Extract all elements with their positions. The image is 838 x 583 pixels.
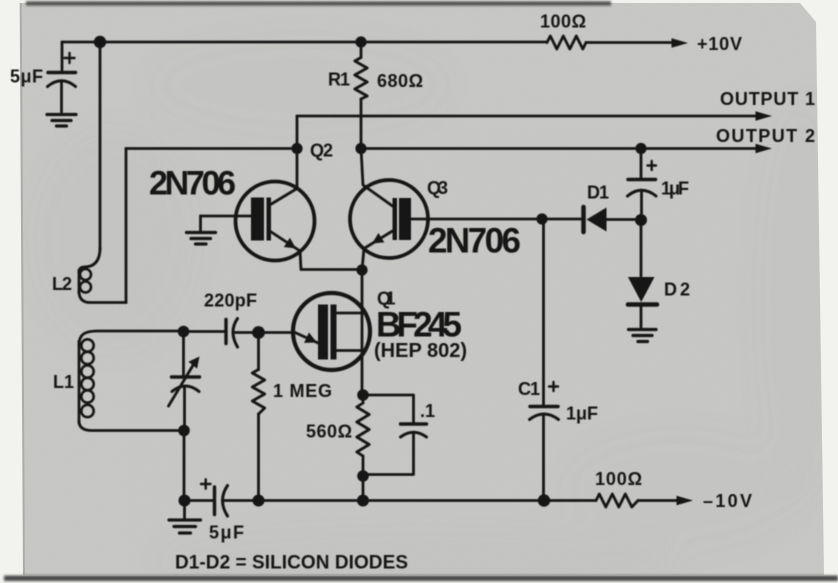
- svg-text:220pF: 220pF: [204, 291, 257, 311]
- svg-text:L1: L1: [53, 372, 74, 392]
- svg-text:1μF: 1μF: [566, 404, 598, 424]
- svg-text:Q3: Q3: [427, 178, 448, 198]
- svg-text:.1: .1: [420, 401, 435, 421]
- svg-text:5μF: 5μF: [209, 523, 244, 543]
- svg-text:100Ω: 100Ω: [540, 12, 586, 32]
- svg-text:OUTPUT 1: OUTPUT 1: [720, 89, 815, 109]
- svg-text:–10V: –10V: [703, 491, 752, 511]
- svg-text:680Ω: 680Ω: [377, 71, 423, 91]
- svg-text:(HEP 802): (HEP 802): [374, 340, 467, 362]
- svg-text:Q2: Q2: [310, 141, 333, 161]
- svg-text:BF245: BF245: [376, 306, 462, 345]
- svg-text:C1: C1: [518, 379, 540, 399]
- svg-text:1μF: 1μF: [661, 179, 689, 199]
- svg-text:D1: D1: [587, 183, 609, 203]
- svg-text:OUTPUT 2: OUTPUT 2: [716, 126, 815, 146]
- svg-text:R1: R1: [328, 70, 350, 90]
- svg-text:100Ω: 100Ω: [595, 469, 642, 489]
- svg-text:5μF: 5μF: [10, 67, 43, 87]
- svg-text:+10V: +10V: [697, 34, 742, 54]
- svg-text:2N706: 2N706: [149, 165, 236, 203]
- svg-text:D1-D2 = SILICON DIODES: D1-D2 = SILICON DIODES: [175, 553, 408, 574]
- svg-text:L2: L2: [52, 274, 72, 294]
- svg-text:1 MEG: 1 MEG: [273, 381, 332, 401]
- svg-text:2N706: 2N706: [428, 222, 521, 261]
- svg-text:560Ω: 560Ω: [306, 422, 352, 442]
